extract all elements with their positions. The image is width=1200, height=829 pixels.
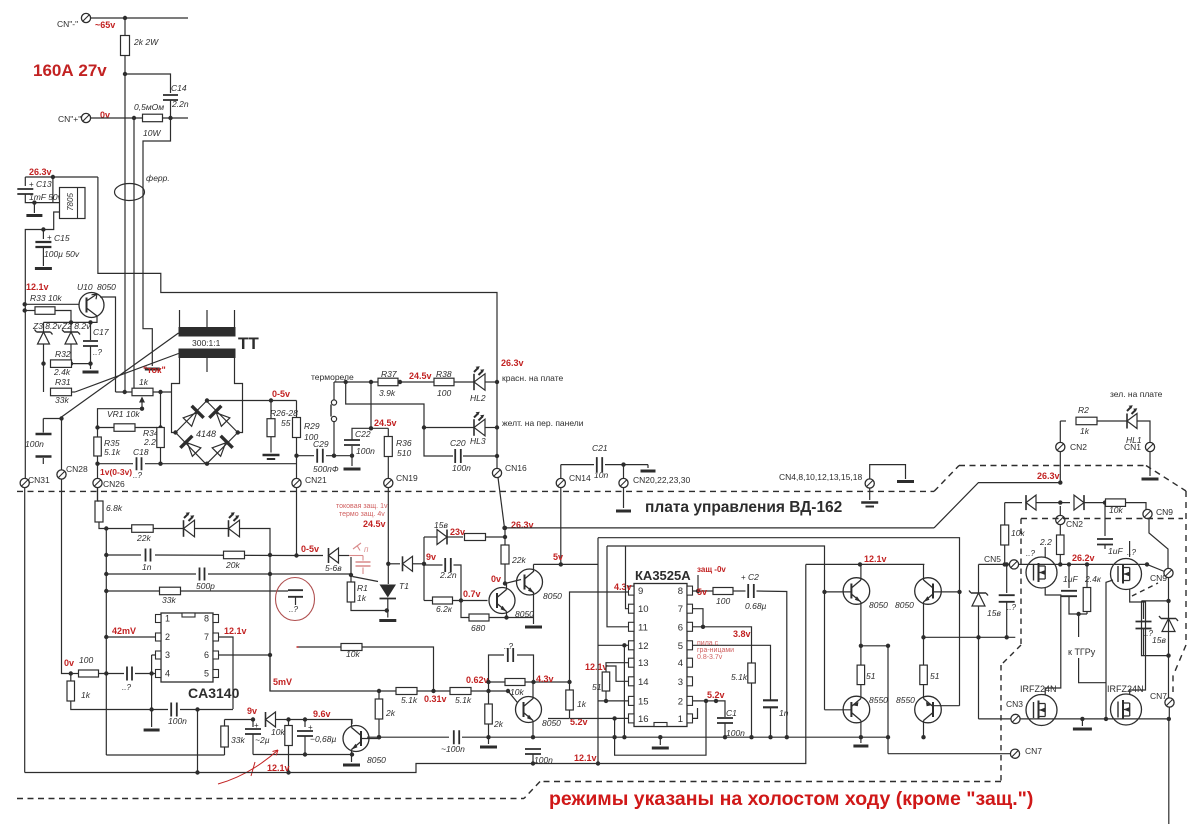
svg-text:CN16: CN16 <box>505 463 527 473</box>
svg-text:33k: 33k <box>231 735 245 745</box>
svg-text:R1: R1 <box>357 583 368 593</box>
svg-text:8050: 8050 <box>895 600 914 610</box>
svg-text:зел. на плате: зел. на плате <box>1110 389 1163 399</box>
svg-text:R37: R37 <box>381 369 397 379</box>
svg-text:2: 2 <box>678 696 683 707</box>
svg-text:0-5v: 0-5v <box>301 544 319 554</box>
svg-text:26.3v: 26.3v <box>501 358 524 368</box>
svg-text:4.3v: 4.3v <box>614 582 632 592</box>
svg-text:4.3v: 4.3v <box>536 674 554 684</box>
svg-text:0.31v: 0.31v <box>424 694 447 704</box>
svg-text:15: 15 <box>638 696 649 707</box>
svg-text:2.2: 2.2 <box>143 437 156 447</box>
svg-text:2.4k: 2.4k <box>53 367 71 377</box>
svg-text:12.1v: 12.1v <box>267 763 290 773</box>
svg-text:0.62v: 0.62v <box>466 675 489 685</box>
svg-text:5.2v: 5.2v <box>707 690 725 700</box>
svg-text:8550: 8550 <box>896 695 915 705</box>
svg-text:..?: ..? <box>1007 603 1016 612</box>
svg-text:9: 9 <box>638 586 643 597</box>
svg-text:5v: 5v <box>553 552 563 562</box>
svg-text:..?: ..? <box>133 471 142 480</box>
svg-text:C13: C13 <box>36 179 52 189</box>
svg-text:100: 100 <box>79 655 93 665</box>
svg-text:22k: 22k <box>136 533 151 543</box>
svg-text:термореле: термореле <box>311 372 354 382</box>
svg-text:7: 7 <box>678 604 683 615</box>
svg-text:R33 10k: R33 10k <box>30 293 62 303</box>
svg-text:100n: 100n <box>25 439 44 449</box>
svg-text:CN31: CN31 <box>28 475 50 485</box>
svg-text:24.5v: 24.5v <box>374 418 397 428</box>
svg-text:+: + <box>254 721 259 730</box>
svg-text:8: 8 <box>204 614 209 624</box>
svg-text:12.1v: 12.1v <box>864 554 887 564</box>
svg-text:R38: R38 <box>436 369 452 379</box>
svg-text:красн. на плате: красн. на плате <box>502 373 564 383</box>
svg-text:9v: 9v <box>247 706 257 716</box>
svg-text:CN28: CN28 <box>66 464 88 474</box>
svg-text:~2µ: ~2µ <box>255 735 270 745</box>
svg-text:R26-28: R26-28 <box>270 408 298 418</box>
svg-text:5.1k: 5.1k <box>731 672 748 682</box>
svg-text:CN1: CN1 <box>1124 442 1141 452</box>
svg-text:CN14: CN14 <box>569 473 591 483</box>
svg-text:U10: U10 <box>77 282 93 292</box>
svg-text:2.2n: 2.2n <box>439 570 457 580</box>
svg-text:п: п <box>364 545 369 554</box>
svg-text:10k: 10k <box>271 727 285 737</box>
svg-text:5-6в: 5-6в <box>325 563 342 573</box>
svg-text:2.2: 2.2 <box>1039 537 1052 547</box>
svg-text:C20: C20 <box>450 438 466 448</box>
svg-text:20k: 20k <box>225 560 240 570</box>
svg-text:100n: 100n <box>356 446 375 456</box>
svg-text:C14: C14 <box>171 83 187 93</box>
svg-text:0v: 0v <box>491 574 501 584</box>
svg-text:8: 8 <box>678 586 683 597</box>
svg-text:+: + <box>47 233 52 242</box>
svg-text:..?: ..? <box>1026 549 1035 558</box>
svg-text:8050: 8050 <box>543 591 562 601</box>
svg-text:C18: C18 <box>133 447 149 457</box>
svg-text:R36: R36 <box>396 438 412 448</box>
svg-text:T1: T1 <box>399 581 409 591</box>
svg-text:24.5v: 24.5v <box>409 371 432 381</box>
svg-text:CN20,22,23,30: CN20,22,23,30 <box>633 475 690 485</box>
svg-text:6: 6 <box>678 622 683 633</box>
svg-text:к ТГРу: к ТГРу <box>1068 647 1096 657</box>
svg-text:13: 13 <box>638 658 649 669</box>
svg-text:51: 51 <box>866 671 876 681</box>
svg-text:1k: 1k <box>357 593 367 603</box>
svg-text:гра-ницами: гра-ницами <box>697 647 734 654</box>
svg-text:500p: 500p <box>196 581 215 591</box>
svg-text:26.3v: 26.3v <box>1037 471 1060 481</box>
svg-text:1k: 1k <box>577 699 587 709</box>
svg-text:CN2: CN2 <box>1066 519 1083 529</box>
svg-text:..?: ..? <box>1127 548 1136 557</box>
svg-text:9v: 9v <box>426 552 436 562</box>
svg-text:режимы указаны на холостом ход: режимы указаны на холостом ходу (кроме "… <box>549 788 1033 810</box>
svg-text:100: 100 <box>437 388 451 398</box>
svg-text:КА3525А: КА3525А <box>635 568 691 583</box>
svg-text:33k: 33k <box>162 595 176 605</box>
svg-text:0.7v: 0.7v <box>463 589 481 599</box>
svg-text:8050: 8050 <box>367 755 386 765</box>
svg-text:3: 3 <box>165 650 170 660</box>
svg-text:3.9k: 3.9k <box>379 388 396 398</box>
svg-text:C21: C21 <box>592 443 608 453</box>
svg-text:51: 51 <box>592 682 602 692</box>
svg-text:10k: 10k <box>346 649 360 659</box>
svg-text:23v: 23v <box>450 527 465 537</box>
svg-text:6.8k: 6.8k <box>106 503 123 513</box>
svg-text:12.1v: 12.1v <box>574 753 597 763</box>
svg-text:0,5мОм: 0,5мОм <box>134 102 164 112</box>
svg-text:22k: 22k <box>511 555 526 565</box>
svg-text:7805: 7805 <box>66 193 75 211</box>
svg-text:C22: C22 <box>355 429 371 439</box>
svg-text:ТТ: ТТ <box>238 334 259 353</box>
svg-text:12.1v: 12.1v <box>224 626 247 636</box>
svg-text:CA3140: CA3140 <box>188 685 240 701</box>
svg-text:55: 55 <box>281 418 291 428</box>
svg-text:Z3 8.2v: Z3 8.2v <box>32 321 62 331</box>
svg-text:..?: ..? <box>289 605 298 614</box>
svg-text:5mV: 5mV <box>273 677 292 687</box>
svg-text:1k: 1k <box>1080 426 1090 436</box>
svg-text:10: 10 <box>638 604 649 615</box>
svg-text:плата управления ВД-162: плата управления ВД-162 <box>645 499 842 516</box>
svg-text:33k: 33k <box>55 395 69 405</box>
svg-text:CN26: CN26 <box>103 479 125 489</box>
svg-text:16: 16 <box>638 714 649 725</box>
svg-text:~100n: ~100n <box>441 744 465 754</box>
svg-text:8050: 8050 <box>97 282 116 292</box>
svg-text:токовая защ. 1v: токовая защ. 1v <box>336 503 388 510</box>
svg-text:6: 6 <box>204 650 209 660</box>
svg-text:−0,68µ: −0,68µ <box>310 734 337 744</box>
svg-text:1uF: 1uF <box>1063 574 1078 584</box>
svg-text:C1: C1 <box>726 708 737 718</box>
svg-text:9.6v: 9.6v <box>313 709 331 719</box>
svg-text:1n: 1n <box>779 708 789 718</box>
svg-text:CN4,8,10,12,13,15,18: CN4,8,10,12,13,15,18 <box>779 472 862 482</box>
svg-text:Z2 8.2v: Z2 8.2v <box>61 321 91 331</box>
svg-text:51: 51 <box>930 671 940 681</box>
svg-text:R31: R31 <box>55 377 71 387</box>
svg-text:C29: C29 <box>313 439 329 449</box>
svg-text:IRFZ24N: IRFZ24N <box>1107 684 1144 694</box>
svg-text:CN7: CN7 <box>1150 691 1167 701</box>
svg-text:160А 27v: 160А 27v <box>33 61 107 80</box>
svg-text:..?: ..? <box>122 683 131 692</box>
svg-text:5.1k: 5.1k <box>104 447 121 457</box>
svg-text:+: + <box>741 573 746 582</box>
svg-text:C15: C15 <box>54 233 70 243</box>
svg-text:HL2: HL2 <box>470 393 486 403</box>
svg-text:пила с: пила с <box>697 640 719 647</box>
svg-text:12: 12 <box>638 641 649 652</box>
svg-text:12.1v: 12.1v <box>585 662 608 672</box>
svg-text:15в: 15в <box>987 608 1001 618</box>
svg-text:1v(0-3v): 1v(0-3v) <box>100 467 132 477</box>
svg-text:500пФ: 500пФ <box>313 464 339 474</box>
svg-text:42mV: 42mV <box>112 626 136 636</box>
svg-text:CN2: CN2 <box>1070 442 1087 452</box>
svg-text:5: 5 <box>204 669 209 679</box>
svg-text:..?: ..? <box>504 642 513 651</box>
svg-text:+: + <box>308 723 313 732</box>
svg-text:26.3v: 26.3v <box>29 167 52 177</box>
svg-text:R2: R2 <box>1078 405 1089 415</box>
svg-text:CN5: CN5 <box>984 554 1001 564</box>
svg-text:5: 5 <box>678 641 683 652</box>
svg-text:2: 2 <box>165 632 170 642</box>
svg-text:1uF: 1uF <box>1108 546 1123 556</box>
svg-text:3.8v: 3.8v <box>733 629 751 639</box>
svg-text:11: 11 <box>638 622 648 633</box>
svg-text:~65v: ~65v <box>95 20 115 30</box>
svg-text:CN"-": CN"-" <box>57 19 78 29</box>
svg-text:100n: 100n <box>726 728 745 738</box>
svg-text:желт. на пер. панели: желт. на пер. панели <box>502 418 584 428</box>
svg-text:100n: 100n <box>168 716 187 726</box>
svg-text:24.5v: 24.5v <box>363 519 386 529</box>
svg-text:CN21: CN21 <box>305 475 327 485</box>
svg-text:15в: 15в <box>434 520 448 530</box>
svg-text:14: 14 <box>638 677 649 688</box>
svg-text:0.8-3.7v: 0.8-3.7v <box>697 654 723 661</box>
svg-text:R32: R32 <box>55 349 71 359</box>
svg-text:10n: 10n <box>594 470 608 480</box>
svg-text:CN19: CN19 <box>396 473 418 483</box>
svg-text:CN3: CN3 <box>1006 699 1023 709</box>
svg-text:"ток": "ток" <box>143 365 166 375</box>
svg-text:100n: 100n <box>452 463 471 473</box>
svg-text:термо защ. 4v: термо защ. 4v <box>339 511 385 518</box>
svg-text:0-5v: 0-5v <box>272 389 290 399</box>
svg-text:2.2n: 2.2n <box>171 99 189 109</box>
svg-text:15в: 15в <box>1152 635 1166 645</box>
svg-text:CN9: CN9 <box>1156 507 1173 517</box>
svg-text:CN7: CN7 <box>1025 746 1042 756</box>
svg-text:10W: 10W <box>143 128 161 138</box>
svg-text:1: 1 <box>678 714 683 725</box>
svg-text:1k: 1k <box>81 690 91 700</box>
svg-text:100n: 100n <box>534 755 553 765</box>
svg-text:2k: 2k <box>385 708 396 718</box>
svg-text:IRFZ24N: IRFZ24N <box>1020 684 1057 694</box>
svg-text:0v: 0v <box>64 658 74 668</box>
svg-text:..?: ..? <box>93 348 102 357</box>
svg-text:2k 2W: 2k 2W <box>133 37 159 47</box>
svg-text:C2: C2 <box>748 572 759 582</box>
svg-text:C17: C17 <box>93 327 109 337</box>
svg-text:510: 510 <box>397 448 411 458</box>
svg-text:12.1v: 12.1v <box>26 282 49 292</box>
svg-text:HL3: HL3 <box>470 436 486 446</box>
svg-text:4148: 4148 <box>196 429 216 439</box>
svg-text:VR1 10k: VR1 10k <box>107 409 140 419</box>
svg-text:8050: 8050 <box>869 600 888 610</box>
svg-text:8050: 8050 <box>542 718 561 728</box>
svg-text:7: 7 <box>204 632 209 642</box>
svg-text:0.68µ: 0.68µ <box>745 601 767 611</box>
svg-text:R29: R29 <box>304 421 320 431</box>
svg-text:ферр.: ферр. <box>146 173 170 183</box>
svg-text:100: 100 <box>716 596 730 606</box>
svg-text:8550: 8550 <box>869 695 888 705</box>
svg-text:10k: 10k <box>1109 505 1123 515</box>
svg-text:5.1k: 5.1k <box>455 695 472 705</box>
svg-text:1n: 1n <box>142 562 152 572</box>
svg-text:10к: 10к <box>1011 528 1025 538</box>
svg-text:2k: 2k <box>493 719 504 729</box>
svg-text:+: + <box>29 180 34 189</box>
svg-text:5v: 5v <box>697 587 707 597</box>
svg-text:4: 4 <box>678 658 683 669</box>
svg-text:защ -0v: защ -0v <box>697 565 726 574</box>
svg-text:6.2к: 6.2к <box>436 604 453 614</box>
svg-text:3: 3 <box>678 677 683 688</box>
svg-text:300:1:1: 300:1:1 <box>192 338 221 348</box>
svg-text:100µ 50v: 100µ 50v <box>44 249 80 259</box>
svg-text:5.1k: 5.1k <box>401 695 418 705</box>
svg-text:680: 680 <box>471 623 485 633</box>
svg-text:1k: 1k <box>139 377 149 387</box>
svg-text:CN"+": CN"+" <box>58 114 81 124</box>
svg-text:1: 1 <box>165 614 170 624</box>
svg-text:4: 4 <box>165 669 170 679</box>
svg-text:26.2v: 26.2v <box>1072 553 1095 563</box>
